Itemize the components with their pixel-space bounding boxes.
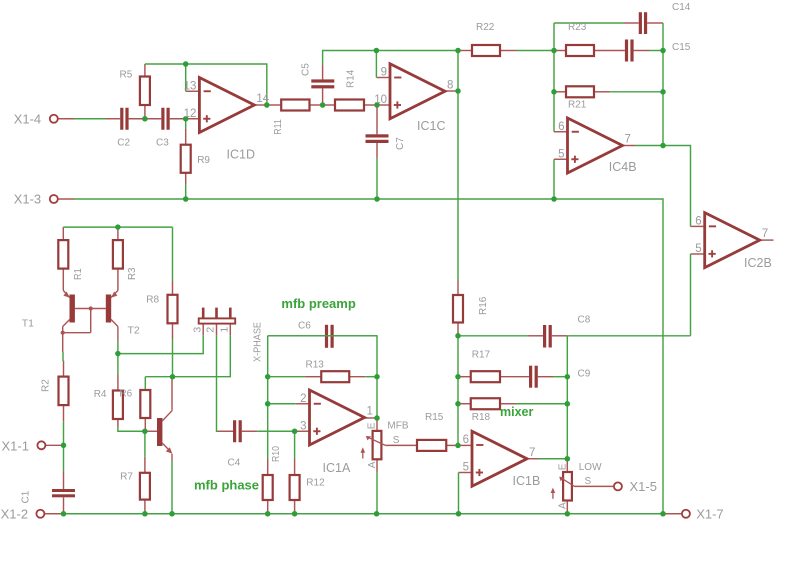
svg-text:5: 5 <box>695 243 701 255</box>
wire C2-C3 link <box>129 118 162 120</box>
wire col554 vertical <box>553 23 555 132</box>
wire LOW top lead <box>566 459 568 472</box>
junction T2 collector <box>115 351 121 357</box>
junction LOW-rail <box>565 511 571 517</box>
svg-text:R10: R10 <box>271 446 282 462</box>
wire pin 9 stub <box>376 77 390 79</box>
wire C8 right lead <box>552 335 568 337</box>
wire R9 top <box>185 119 187 129</box>
wire R5 top lead <box>144 64 146 77</box>
svg-text:C2: C2 <box>117 138 130 149</box>
svg-text:IC4B: IC4B <box>609 160 637 174</box>
wire R12 bottom lead <box>294 500 296 514</box>
wire C15 to rcol <box>650 50 664 52</box>
svg-text:C1: C1 <box>21 490 32 503</box>
wire X1-4 pad stub <box>58 118 75 120</box>
resistor R15 <box>417 440 446 451</box>
label X-PHASE <box>252 322 264 362</box>
pin 7 label <box>762 228 768 240</box>
svg-text:R23: R23 <box>568 22 587 33</box>
wire X1-1 to R2 <box>63 421 65 445</box>
svg-text:2: 2 <box>300 393 306 405</box>
resistor R18 <box>471 398 500 409</box>
wire netA <box>118 335 203 353</box>
wire net50 left <box>376 50 458 52</box>
wire base to collector <box>63 309 91 333</box>
resistor R13 <box>321 371 349 382</box>
capacitor C7 <box>366 134 389 143</box>
svg-text:X1-3: X1-3 <box>14 192 41 207</box>
label R9 <box>197 155 210 166</box>
wire pin3 to R12 <box>294 431 296 459</box>
junction pin14 <box>264 102 270 108</box>
wire pin 1 stub <box>365 417 378 419</box>
junction pin9 tap <box>374 48 380 54</box>
junction R8-T3-netB <box>170 374 176 380</box>
wire IC4B out <box>635 145 663 147</box>
wire C1 top lead <box>63 472 65 490</box>
wire X1-7 pad stub <box>663 513 682 515</box>
svg-text:S: S <box>585 476 592 487</box>
wire R13 right wire <box>365 376 377 378</box>
terminal label X1-5 <box>630 479 657 494</box>
LOW arrow <box>551 488 556 499</box>
svg-text:7: 7 <box>529 447 535 459</box>
wire pin 5 stub IC1B <box>459 472 473 474</box>
op-amp IC4B <box>568 118 623 173</box>
label LOW <box>579 462 602 473</box>
wire C7 top lead <box>376 105 378 134</box>
label IC2B <box>744 256 772 270</box>
svg-text:2: 2 <box>205 327 217 333</box>
resistor R1 <box>58 240 68 269</box>
terminal X1-1 <box>37 441 45 449</box>
wire C5 bottom lead <box>322 88 324 105</box>
resistor R9 <box>181 145 191 173</box>
wire R1 bottom lead <box>62 269 64 291</box>
wire pin 5 stub IC4B <box>554 158 568 160</box>
wire R13 right lead <box>349 376 365 378</box>
wire MFB to rail <box>376 472 378 514</box>
wire C4 to pin3 <box>257 430 294 432</box>
terminal X1-4 <box>50 115 58 123</box>
wire pin5 IC1B to rail <box>458 473 460 514</box>
pin 13 label <box>184 80 197 92</box>
junction T3-rail <box>169 511 175 517</box>
junction pin8 <box>455 88 461 94</box>
wire T2col to R4 <box>117 354 119 375</box>
junction R3 top <box>115 224 121 230</box>
wire R8 bottom lead <box>172 323 174 339</box>
wire R8 to netB <box>172 339 174 377</box>
junction pin5-rail <box>551 196 557 202</box>
pin 8 label <box>447 79 453 91</box>
svg-text:C5: C5 <box>301 63 312 76</box>
wire pin 6 stub IC1B <box>458 444 472 446</box>
resistor R2 <box>59 377 69 406</box>
label R3 <box>127 267 138 280</box>
wire R17 to C9 <box>500 376 529 378</box>
wire R1 top lead <box>62 227 64 240</box>
wire T3 emitter down <box>171 461 173 514</box>
label C5 <box>301 63 312 76</box>
junction pin3 <box>292 429 298 435</box>
svg-text:T2: T2 <box>128 324 140 336</box>
wire pin 7 stub IC2B <box>760 239 774 241</box>
wire LOW S to X1-5 <box>575 485 614 487</box>
svg-text:IC1A: IC1A <box>323 461 351 475</box>
junction R18-col <box>565 401 571 407</box>
svg-text:C7: C7 <box>395 137 406 150</box>
wire out to R13 <box>376 377 378 418</box>
wire X1-2 pad stub <box>44 513 63 515</box>
wire T1 collector drop <box>62 333 64 352</box>
junction T3 base <box>142 429 148 435</box>
wire C15 right lead <box>634 50 650 52</box>
resistor R23 <box>566 45 594 56</box>
capacitor C5 <box>311 79 334 88</box>
junction T1 collector <box>61 331 65 335</box>
wire R5 bottom lead <box>144 105 146 119</box>
svg-text:R18: R18 <box>472 412 491 423</box>
svg-text:3: 3 <box>191 327 203 333</box>
label C9 <box>578 368 591 379</box>
junction pin8-R22 <box>455 48 461 54</box>
wire R2 to T1 <box>62 352 64 361</box>
wire R16 net down <box>457 336 459 446</box>
wire R14 right lead <box>364 104 377 106</box>
wire C7 to rail <box>376 158 378 199</box>
svg-text:R8: R8 <box>146 295 159 306</box>
svg-text:3: 3 <box>300 420 306 432</box>
wire C1 bottom lead <box>63 497 65 513</box>
label LOW A <box>557 502 568 509</box>
pin 6 label <box>558 121 564 133</box>
wire C9 to mixer col <box>553 376 567 378</box>
svg-text:A: A <box>367 461 378 468</box>
pin 10 label <box>374 94 387 106</box>
op-amp IC1D <box>199 78 254 133</box>
resistor R16 <box>453 295 463 323</box>
pin 7 label <box>625 134 631 146</box>
wire pin8 up <box>457 51 459 92</box>
wire R11 left lead <box>267 104 281 106</box>
svg-text:LOW: LOW <box>579 462 602 473</box>
wire R15 right lead <box>446 444 458 446</box>
resistor R12 <box>290 475 300 500</box>
wire C6 crossover <box>268 335 377 337</box>
wire R8 top lead <box>172 281 174 295</box>
svg-text:E: E <box>557 463 568 470</box>
svg-text:7: 7 <box>762 228 768 240</box>
wire pin 6 stub IC4B <box>554 131 568 133</box>
wire pin5 to rail <box>553 159 555 199</box>
junction IC4B out <box>660 143 666 149</box>
wire C6 net <box>268 336 377 377</box>
junction R10-rail <box>265 511 271 517</box>
junction R12-rail <box>292 511 298 517</box>
wire pin2 wire <box>268 403 296 405</box>
junction rail-C1 <box>61 511 67 517</box>
wire C7 bottom lead <box>376 143 378 158</box>
wire R21 to rcol <box>610 91 663 93</box>
wire R22 to col554 <box>516 50 554 52</box>
wire X1-3 rail <box>75 199 664 514</box>
wire pin 7 stub IC4B <box>623 145 636 147</box>
terminal X1-2 <box>36 510 44 518</box>
svg-text:R12: R12 <box>306 478 325 489</box>
wire T3 base stub <box>145 430 157 432</box>
transistor T3 <box>157 405 172 461</box>
pin 3 label <box>300 420 306 432</box>
svg-text:R14: R14 <box>346 69 357 88</box>
wire C2 left lead <box>105 118 120 120</box>
junction R13 right <box>374 374 380 380</box>
resistor R10 <box>263 475 273 500</box>
label R6 <box>119 389 132 400</box>
capacitor C2 <box>120 108 128 130</box>
label R14 <box>346 69 357 88</box>
junction R13 left <box>265 374 271 380</box>
label C15 <box>672 42 691 53</box>
svg-text:mfb phase: mfb phase <box>194 478 259 493</box>
wire R7 top lead <box>144 457 146 473</box>
label C3 <box>156 138 169 149</box>
label R2 <box>41 379 52 392</box>
label IC1B <box>513 474 541 488</box>
transistor T1 <box>63 291 75 333</box>
wire R22 right lead <box>500 50 516 52</box>
svg-text:S: S <box>393 435 400 446</box>
svg-text:R4: R4 <box>94 389 107 400</box>
wire conn pin3 lead <box>202 324 204 336</box>
wire C4 left lead <box>218 430 233 432</box>
wire R16 top lead <box>457 280 459 296</box>
terminal X1-7 <box>682 510 690 518</box>
junction R15-pin6 <box>455 443 461 449</box>
wire X1-4 to C2 <box>75 118 107 120</box>
label R5 <box>120 70 133 81</box>
label R10 <box>271 446 282 462</box>
wire R4 bottom lead <box>117 419 119 428</box>
pin 14 label <box>256 93 269 105</box>
label mfb preamp <box>281 296 355 311</box>
resistor R8 <box>168 295 178 324</box>
wire pin 3 stub <box>295 430 310 432</box>
pin 5 label <box>558 148 564 160</box>
op-amp IC1C <box>390 64 445 119</box>
junction col554-R21 <box>551 89 557 95</box>
junction R7-rail <box>142 511 148 517</box>
wire pin13 drop <box>185 64 187 91</box>
wire conn pin2 to C4 <box>217 335 219 431</box>
junction X1-1 <box>61 443 67 449</box>
svg-text:5: 5 <box>463 462 469 474</box>
wire pin 14 stub <box>254 104 266 106</box>
wire R18 to mixer col <box>516 403 567 405</box>
pin 9 label <box>381 67 387 79</box>
wire R11 right lead <box>310 104 323 106</box>
svg-text:9: 9 <box>381 67 387 79</box>
junction pin2 <box>265 401 271 407</box>
svg-text:R5: R5 <box>120 70 133 81</box>
connector pin 2 label <box>205 327 217 333</box>
svg-text:6: 6 <box>558 121 564 133</box>
terminal label X1-2 <box>1 506 28 521</box>
wire R12 top lead <box>294 459 296 475</box>
svg-text:C4: C4 <box>228 458 241 469</box>
label T2 <box>128 324 140 336</box>
wire R3 bottom lead <box>117 269 119 291</box>
svg-text:R13: R13 <box>306 360 325 371</box>
label R23 <box>568 22 587 33</box>
label R16 <box>478 296 489 315</box>
label C2 <box>117 138 130 149</box>
resistor R3 <box>113 240 123 269</box>
wire R7 bottom lead <box>144 500 146 514</box>
junction IC1A out <box>374 415 380 421</box>
label R22 <box>476 22 495 33</box>
resistor R22 <box>472 45 500 56</box>
svg-text:C9: C9 <box>578 368 591 379</box>
svg-text:MFB: MFB <box>387 421 408 432</box>
wire T2 collector <box>117 341 119 354</box>
wire C8 net left <box>458 335 528 337</box>
wire C4 right lead <box>242 430 257 432</box>
svg-text:R17: R17 <box>472 350 491 361</box>
svg-text:6: 6 <box>463 434 469 446</box>
wire bottom rail <box>64 513 664 515</box>
svg-text:13: 13 <box>184 80 197 92</box>
label R21 <box>568 100 587 111</box>
wire R6 top <box>144 377 146 390</box>
wire T1-T2 base <box>75 308 106 310</box>
junction R17 left <box>455 374 461 380</box>
junction col554-net50 <box>551 48 557 54</box>
op-amp IC1B <box>472 431 527 486</box>
label IC4B <box>609 160 637 174</box>
wire R18 left lead <box>458 403 471 405</box>
wire top net <box>554 22 624 24</box>
terminal label X1-4 <box>14 112 41 127</box>
capacitor C6 <box>325 325 334 348</box>
wire MFB top lead <box>376 418 378 431</box>
pin 6 label <box>463 434 469 446</box>
terminal label X1-7 <box>696 507 723 522</box>
svg-text:R16: R16 <box>478 296 489 315</box>
wire pin 8 stub <box>445 90 458 92</box>
resistor R4 <box>113 391 123 420</box>
label MFB S <box>393 435 400 446</box>
wire MFB S wire <box>385 444 417 446</box>
svg-text:12: 12 <box>184 108 197 120</box>
junction R11-C5 <box>320 102 326 108</box>
potentiometer MFB body <box>366 431 386 459</box>
junction pin12 <box>183 116 189 122</box>
junction rail-rcol <box>660 511 666 517</box>
wire X1-1 pad stub <box>45 444 63 446</box>
svg-text:R6: R6 <box>119 389 132 400</box>
label MFB <box>387 421 408 432</box>
wire netB <box>145 335 230 376</box>
label IC1D <box>227 148 255 162</box>
svg-text:A: A <box>557 502 568 509</box>
label C8 <box>578 315 591 326</box>
wire R9 top lead <box>185 129 187 145</box>
svg-text:1: 1 <box>367 406 373 418</box>
label IC1A <box>323 461 351 475</box>
label R18 <box>472 412 491 423</box>
svg-text:R2: R2 <box>41 379 52 392</box>
label C7 <box>395 137 406 150</box>
wire C5 top lead <box>322 65 324 79</box>
wire C8 left lead <box>528 335 543 337</box>
svg-text:R1: R1 <box>73 268 84 280</box>
resistor R7 <box>140 473 150 500</box>
svg-text:R15: R15 <box>425 412 444 423</box>
svg-text:R3: R3 <box>127 267 138 280</box>
junction pin5B-rail <box>456 511 462 517</box>
wire R8 top <box>172 227 174 281</box>
junction pin10 <box>374 102 380 108</box>
svg-text:R11: R11 <box>273 119 284 135</box>
label mfb phase <box>194 478 259 493</box>
capacitor C3 <box>161 108 169 130</box>
label R11 <box>273 119 284 135</box>
op-amp IC2B <box>705 213 760 268</box>
wire pin 7 stub IC1B <box>527 458 539 460</box>
wire C5 to pin9 net <box>323 51 377 66</box>
junction C9-col <box>565 374 571 380</box>
wire R21 left lead <box>554 91 566 93</box>
wire R16 bottom lead <box>457 323 459 336</box>
wire T3 collector up <box>171 377 173 405</box>
wire right column upper <box>662 23 664 146</box>
capacitor C4 <box>233 420 242 442</box>
junction R9-rail <box>183 196 189 202</box>
wire R3 top lead <box>117 227 119 240</box>
junction rcol-C15 <box>660 48 666 54</box>
potentiometer LOW body <box>559 472 574 501</box>
label R4 <box>94 389 107 400</box>
wire IC1B out <box>539 458 567 460</box>
terminal X1-3 <box>50 195 58 203</box>
wire R9 to rail <box>185 184 187 199</box>
wire R2 bottom lead <box>63 405 65 421</box>
svg-text:X-PHASE: X-PHASE <box>252 322 264 362</box>
wire R4 to base <box>118 428 145 432</box>
wire pin9 drop <box>375 51 377 78</box>
svg-text:R22: R22 <box>476 22 495 33</box>
wire pin2 column <box>267 336 269 459</box>
junction C2-C3-R5 <box>142 116 148 122</box>
label C4 <box>228 458 241 469</box>
label MFB E <box>367 422 378 429</box>
svg-text:C15: C15 <box>672 42 691 53</box>
svg-text:X1-1: X1-1 <box>2 438 29 453</box>
junction base <box>89 306 93 310</box>
wire pin 13 stub <box>186 90 200 92</box>
wire C14 left lead <box>624 22 639 24</box>
wire R13 left wire <box>268 376 306 378</box>
terminal label X1-3 <box>14 192 41 207</box>
wire conn pin2 lead <box>216 324 218 336</box>
wire LOW bottom lead <box>566 501 568 514</box>
svg-text:IC1C: IC1C <box>417 119 445 133</box>
label R12 <box>306 478 325 489</box>
resistor R11 <box>281 100 309 111</box>
wire pin 2 stub <box>296 403 310 405</box>
